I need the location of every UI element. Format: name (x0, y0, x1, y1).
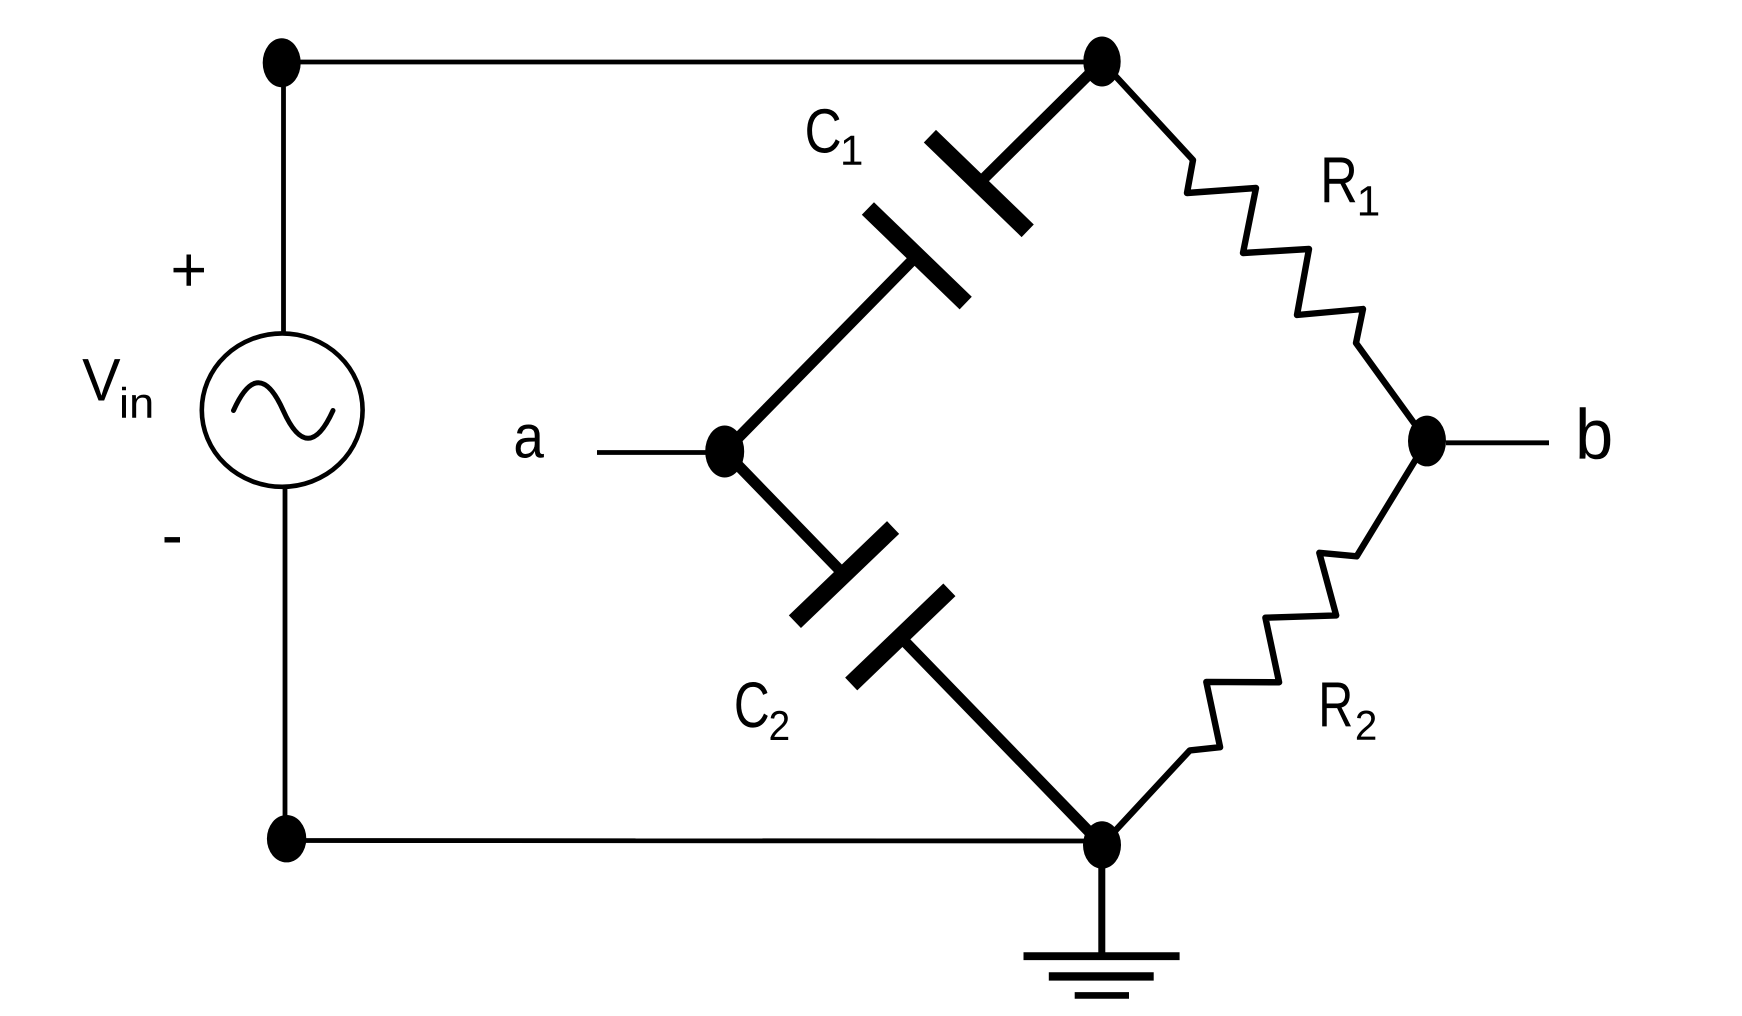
resistor R1 (zigzag from top node to node b) (1102, 62, 1427, 442)
capacitor C1 lead from top node (979, 62, 1102, 184)
wire bottom (bottom-left node to bottom node) (287, 838, 1102, 843)
label C2 subscript 2 (771, 711, 789, 740)
source V_in (AC source circle) (202, 333, 363, 486)
label R1 subscript 1 (1360, 186, 1378, 215)
node bottom-left (267, 815, 306, 862)
label R2 letter R (1322, 682, 1351, 726)
capacitor C2 upper plate (795, 528, 893, 622)
wire top (top-left node to top node) (282, 60, 1102, 65)
label in subscript of Vin (122, 387, 126, 418)
label V of Vin (82, 359, 120, 400)
ground bar 2 (1049, 972, 1154, 980)
label C1 letter C (807, 109, 840, 153)
resistor R2 (zigzag from node b to bottom node) (1102, 441, 1427, 845)
ground stub wire (1098, 845, 1105, 956)
label C2 letter C (736, 682, 767, 728)
label - (source negative) (165, 537, 181, 542)
ground bar 3 (1075, 992, 1129, 999)
wire left upper (top-left node down to source +) (281, 63, 286, 336)
ground bar 1 (1024, 952, 1180, 960)
node bottom (1083, 821, 1121, 868)
node a (junction dot) (705, 426, 744, 478)
label R2 subscript 2 (1357, 710, 1375, 739)
wire stub to node a (597, 450, 706, 455)
node top-left (263, 38, 301, 87)
label C1 subscript 1 (843, 136, 861, 165)
label node b (1580, 407, 1611, 459)
capacitor C2 lead from bottom node (900, 637, 1102, 845)
node top (1083, 37, 1120, 87)
capacitor C2 lower plate (851, 590, 949, 684)
capacitor C1 upper plate (930, 136, 1028, 231)
capacitor C1 lead from node a (725, 256, 917, 452)
label R1 letter R (1324, 157, 1355, 202)
label + (source positive) (173, 254, 203, 285)
wire stub from node b (1446, 440, 1549, 445)
capacitor C1 lower plate (868, 209, 966, 304)
sine wave inside source (234, 383, 334, 439)
capacitor C2 lead from node a (725, 452, 844, 575)
wire left lower (source - down to bottom-left node) (283, 486, 288, 839)
node b (junction dot) (1408, 416, 1446, 467)
label node a (516, 424, 544, 458)
